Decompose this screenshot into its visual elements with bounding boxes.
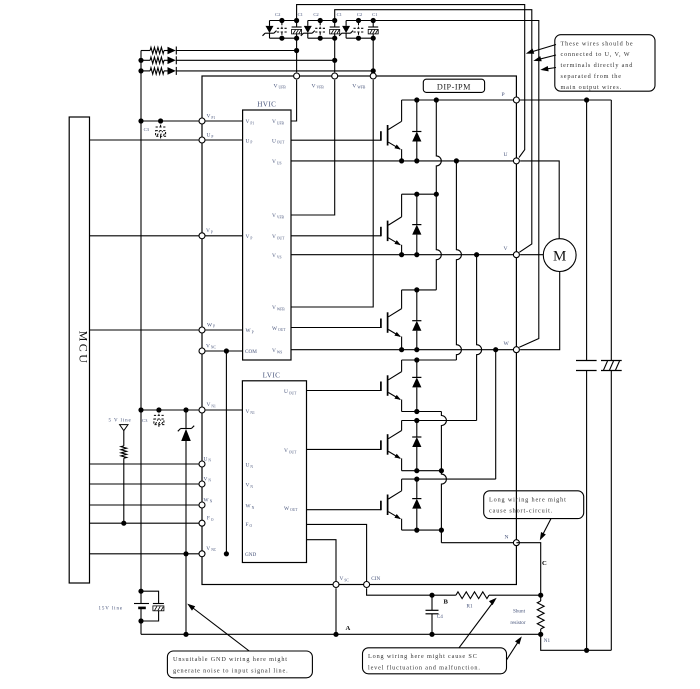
- wire snubber cap lower: [586, 371, 588, 651]
- wire W to motor: [520, 272, 560, 350]
- wire 15V bottom join: [140, 608, 142, 621]
- svg-text:W: W: [504, 341, 510, 347]
- svg-text:HVIC: HVIC: [257, 101, 276, 109]
- wire zener gnd to rail: [185, 554, 187, 635]
- svg-text:terminals directly and: terminals directly and: [561, 62, 634, 69]
- diode bootstrap charge W: [168, 67, 176, 75]
- terminal P: [513, 97, 519, 103]
- diode Q3 (W upper) freewheel: [416, 290, 418, 321]
- leader arrow to W sense wire: [544, 68, 556, 70]
- svg-text:C2: C2: [357, 12, 363, 17]
- leader arrow to N corner: [542, 519, 551, 536]
- wire P riser (feeds Q2,Q3): [436, 100, 441, 290]
- svg-text:A: A: [346, 625, 351, 632]
- wire electrolytic branch: [610, 100, 612, 361]
- wire MCU to VP: [90, 235, 203, 237]
- diode bootstrap charge U: [168, 47, 176, 55]
- wire LVIC pin to VSC terminal: [307, 540, 337, 585]
- transistor Q6 (W lower): [401, 479, 403, 491]
- svg-text:P: P: [502, 92, 505, 98]
- wire WP terminal to pin: [202, 329, 243, 331]
- battery 15V: [134, 603, 149, 605]
- wire rail U-bootstrap to U terminal: [297, 5, 525, 158]
- wire pull-up to Fo: [123, 458, 125, 523]
- terminal WN: [199, 502, 205, 508]
- wire rail W-bootstrap to W terminal: [373, 21, 539, 348]
- wire charge row V mid: [164, 59, 168, 61]
- svg-text:R1: R1: [467, 604, 473, 610]
- wire 5V arrow to resistor: [123, 431, 125, 446]
- wire V to motor: [520, 254, 543, 256]
- terminal VN: [199, 481, 205, 487]
- wire MCU to WP: [90, 329, 203, 331]
- svg-text:V: V: [504, 246, 508, 252]
- resistor Fo pull-up: [121, 446, 127, 458]
- zener diode VN1 clamp: [185, 410, 187, 429]
- leader arrow to N1 wiring: [507, 640, 520, 660]
- wire N to shunt: [516, 543, 540, 596]
- junction W riser/W row: [493, 347, 498, 352]
- resistor bootstrap charge U: [150, 47, 164, 53]
- DIP-IPM package outline: [202, 76, 516, 585]
- wire 15V cap branch top: [141, 591, 159, 603]
- svg-text:main output wires.: main output wires.: [561, 84, 623, 91]
- wire VWFB pin: [291, 80, 373, 307]
- capacitor C2 bootstrap V: [315, 23, 325, 36]
- svg-text:LVIC: LVIC: [263, 371, 281, 379]
- capacitor C3 (VN1, dashed): [154, 410, 164, 428]
- junction C4/R1 (node B): [429, 593, 434, 598]
- wire VUS row (U phase): [291, 160, 516, 162]
- junction bootstrap U / charge row: [294, 48, 299, 53]
- terminal VN1: [199, 407, 205, 413]
- svg-text:DIP-IPM: DIP-IPM: [437, 82, 471, 91]
- diode Q6 (W lower) freewheel: [416, 479, 418, 499]
- junction 15V/VP1 row: [138, 118, 143, 123]
- wire control gnd rail: [141, 633, 541, 635]
- wire MCU to WN: [90, 504, 203, 506]
- terminal VUFB: [294, 73, 300, 79]
- junction bootstrap V / charge row: [332, 58, 337, 63]
- wire LVIC VOUT gate row: [307, 448, 381, 450]
- capacitor C2 bootstrap U: [277, 23, 287, 36]
- junction N1: [538, 632, 543, 637]
- junction snubber/bottom: [584, 648, 589, 653]
- svg-text:generate noise to input signal: generate noise to input signal line.: [173, 668, 289, 675]
- junction GND link/GND row: [224, 551, 229, 556]
- terminal VVFB: [332, 73, 338, 79]
- terminal WP: [199, 327, 205, 333]
- transistor Q1 (U upper): [401, 100, 403, 121]
- svg-text:Long wiring here might: Long wiring here might: [489, 496, 567, 503]
- transistor Q3 (W upper): [401, 290, 403, 309]
- capacitor C3 (VP1, dashed): [156, 121, 166, 140]
- capacitor C1 bootstrap U: [296, 21, 298, 27]
- terminal V: [513, 252, 519, 258]
- junction D1/P: [414, 97, 419, 102]
- svg-text:M: M: [553, 249, 566, 265]
- svg-text:C3: C3: [142, 418, 148, 423]
- wire VP terminal to pin: [202, 235, 243, 237]
- junction D anode/W row: [414, 347, 419, 352]
- callout: sense wiring note: [555, 35, 655, 91]
- capacitor 15V electrolytic: [153, 603, 164, 605]
- wire charge row W mid: [164, 70, 168, 72]
- terminal VSC: [333, 582, 339, 588]
- svg-text:C1: C1: [298, 12, 304, 17]
- wire 15V to battery: [140, 591, 142, 603]
- junction dots bootstrap V: [318, 18, 323, 23]
- junction VSC/gnd rail (node A): [333, 632, 338, 637]
- wire bootstrap U bottom: [270, 37, 297, 39]
- junction C3/VP1: [158, 118, 163, 123]
- wire electrolytic lower: [610, 371, 612, 651]
- wire VP1 row: [141, 120, 202, 122]
- svg-text:MCU: MCU: [77, 331, 91, 366]
- junction bus/Q5 emitter: [439, 468, 444, 473]
- wire 15V to gnd rail: [140, 621, 142, 634]
- junction C3b/VN1: [156, 407, 161, 412]
- junction 15V/charge row V: [138, 58, 143, 63]
- junction zener/gnd row: [183, 551, 188, 556]
- wire bootstrap W top: [346, 20, 373, 22]
- diode Q2 (V upper) freewheel: [416, 194, 418, 224]
- svg-text:connected to U, V, W: connected to U, V, W: [561, 51, 631, 58]
- terminal UN: [199, 461, 205, 467]
- wire charge row U left: [141, 50, 150, 52]
- svg-text:CIN: CIN: [371, 576, 380, 582]
- junction D6 top: [414, 477, 419, 482]
- junction D4 top: [414, 357, 419, 362]
- resistor bootstrap charge V: [150, 57, 164, 63]
- terminal VWFB: [370, 73, 376, 79]
- wire U riser (to Q4): [456, 161, 461, 360]
- wire Q6 collector row: [402, 478, 496, 480]
- junction D2 top: [414, 192, 419, 197]
- wire MCU to UN: [90, 463, 203, 465]
- diode Q4 (U lower) freewheel: [416, 360, 418, 377]
- wire MCU to UP: [90, 139, 203, 141]
- diode Q1 (U upper) freewheel: [416, 100, 418, 132]
- junction C4/gnd rail: [429, 632, 434, 637]
- svg-text:COM: COM: [245, 349, 257, 355]
- svg-text:Long wiring here might cause S: Long wiring here might cause SC: [368, 653, 478, 660]
- wire bootstrap V bottom: [308, 37, 335, 39]
- terminal N: [513, 540, 519, 546]
- wire VSC to A node: [335, 588, 337, 634]
- wire Q3 collector row: [402, 289, 437, 291]
- wire rail V-bootstrap to V terminal: [335, 10, 532, 253]
- capacitor DC-link electrolytic: [601, 360, 622, 362]
- wire VNC to COM pin: [202, 350, 243, 352]
- junction P riser/P row: [434, 97, 439, 102]
- junction D anode/U row: [414, 158, 419, 163]
- svg-text:B: B: [444, 599, 449, 606]
- terminal VNC: [199, 348, 205, 354]
- wire snubber cap branch: [586, 100, 588, 361]
- svg-text:C1: C1: [372, 12, 378, 17]
- junction D6 anode: [414, 528, 419, 533]
- capacitor C2 bootstrap W: [354, 23, 364, 36]
- leader arrow to V sense wire: [537, 55, 556, 60]
- junction 15V/charge row W: [138, 68, 143, 73]
- terminal VP1: [199, 118, 205, 124]
- wire bootstrap U top: [270, 20, 297, 22]
- wire N1 to DC-link bottom: [541, 634, 612, 650]
- wire R1 to shunt top: [489, 594, 541, 596]
- junction zener gnd/rail: [183, 632, 188, 637]
- svg-text:5 V line: 5 V line: [109, 419, 132, 424]
- terminal UP: [199, 137, 205, 143]
- terminal VNC2: [199, 551, 205, 557]
- junction dots bootstrap U: [279, 18, 284, 23]
- capacitor snubber: [576, 360, 597, 362]
- svg-text:level fluctuation and malfunct: level fluctuation and malfunction.: [368, 664, 481, 671]
- svg-text:15V line: 15V line: [99, 607, 123, 612]
- diode Q5 (V lower) freewheel: [416, 421, 418, 438]
- wire U to motor: [520, 161, 559, 239]
- wire VWS row (W phase): [291, 349, 516, 351]
- junction D5 top: [414, 418, 419, 423]
- op-chip HVIC box: [243, 110, 291, 360]
- junction U riser/U row: [454, 158, 459, 163]
- junction V riser/V row: [474, 252, 479, 257]
- wire CIN to RC filter: [367, 588, 456, 595]
- op-chip LVIC box: [242, 381, 306, 563]
- junction shunt top: [538, 593, 543, 598]
- wire P row: [402, 99, 612, 101]
- junction zener/VN1: [183, 407, 188, 412]
- wire Q4 collector row: [402, 359, 457, 361]
- wire VOUT gate row: [291, 235, 381, 237]
- wire MCU gnd row: [90, 553, 203, 555]
- junction 15V cap branch top: [138, 589, 143, 594]
- shunt resistor: [540, 595, 542, 601]
- diode bootstrap charge V: [168, 57, 176, 65]
- junction bus/Q6 emitter: [439, 528, 444, 533]
- wire Q5 collector row: [402, 420, 477, 422]
- svg-text:C2: C2: [275, 12, 281, 17]
- wire UP terminal to pin: [202, 139, 243, 141]
- leader arrow to gnd wiring: [191, 607, 249, 652]
- wire charge row W left: [141, 70, 150, 72]
- junction Q emitter/V row: [399, 252, 404, 257]
- wire charge row U right: [176, 50, 297, 52]
- junction P riser/Q2 row: [434, 192, 439, 197]
- terminal CIN: [364, 582, 370, 588]
- wire VVFB pin: [291, 80, 335, 215]
- wire charge row V right: [176, 59, 335, 61]
- svg-text:Unsuitable GND wiring here mig: Unsuitable GND wiring here might: [173, 656, 288, 663]
- wire Q6 emitter row: [402, 529, 442, 531]
- resistor R1: [456, 592, 489, 599]
- junction Q emitter/W row: [399, 347, 404, 352]
- wire MCU to Fo: [90, 522, 203, 524]
- wire Q2 collector row: [402, 193, 437, 195]
- svg-text:resistor: resistor: [510, 620, 526, 626]
- wire COM to LVIC GND link: [225, 351, 227, 554]
- junction bootstrap W / charge row: [371, 68, 376, 73]
- svg-text:N: N: [505, 534, 509, 540]
- wire VN1 row: [141, 409, 242, 411]
- wire charge row V left: [141, 59, 150, 61]
- junction 15V/VN1 row: [138, 407, 143, 412]
- junction COM/GND link: [224, 348, 229, 353]
- wire Q5 emitter row: [402, 470, 442, 472]
- junction snubber/P row: [584, 97, 589, 102]
- wire V riser (to Q5): [477, 255, 482, 421]
- wire WOUT gate row: [291, 327, 381, 329]
- junction D anode/V row: [414, 252, 419, 257]
- wire VP1 terminal to pin: [202, 120, 243, 122]
- wire +15V rail vertical: [140, 51, 142, 592]
- svg-text:GND: GND: [245, 552, 256, 558]
- terminal Fo: [199, 520, 205, 526]
- motor M: [543, 239, 576, 272]
- junction D4 anode: [414, 409, 419, 414]
- wire MCU to VN: [90, 483, 203, 485]
- wire charge row W right: [176, 70, 373, 72]
- svg-text:C4: C4: [437, 614, 443, 620]
- terminal VP: [199, 233, 205, 239]
- svg-text:Shunt: Shunt: [513, 609, 526, 615]
- junction dots bootstrap W: [356, 18, 361, 23]
- transistor Q5 (V lower): [401, 421, 403, 431]
- junction pullup/Fo: [121, 521, 126, 526]
- wire UOUT gate row: [291, 139, 381, 141]
- svg-text:cause short-circuit.: cause short-circuit.: [489, 508, 553, 515]
- junction D3 top: [414, 287, 419, 292]
- callout: SC level note: [363, 648, 507, 674]
- svg-text:separated from the: separated from the: [561, 73, 622, 80]
- svg-text:C1: C1: [337, 12, 343, 17]
- capacitor C1 bootstrap W: [372, 21, 374, 27]
- capacitor C4: [431, 595, 433, 610]
- wire emitter bus to N: [441, 412, 446, 543]
- transistor Q2 (V upper): [401, 194, 403, 217]
- wire VVS row (V phase): [291, 254, 516, 256]
- wire bootstrap U to VUFB terminal: [296, 38, 298, 72]
- zener diode bootstrap V: [307, 21, 309, 26]
- wire W riser (to Q6): [495, 350, 497, 479]
- wire bootstrap V top: [308, 20, 335, 22]
- junction Q emitter/U row: [399, 158, 404, 163]
- zener diode bootstrap U: [269, 21, 271, 26]
- junction D5 anode: [414, 468, 419, 473]
- svg-text:C2: C2: [313, 12, 319, 17]
- transistor Q4 (U lower): [401, 360, 403, 372]
- terminal W: [513, 347, 519, 353]
- MCU block: [69, 117, 89, 583]
- wire bootstrap V to VVFB terminal: [334, 38, 336, 72]
- callout: short-circuit note: [484, 491, 584, 519]
- wire bootstrap W to VWFB terminal: [372, 38, 374, 72]
- DIP-IPM title box: [423, 79, 484, 92]
- terminal U: [513, 158, 519, 164]
- wire LVIC pin to CIN terminal: [307, 524, 367, 584]
- supply arrow 5V: [120, 425, 128, 431]
- callout: GND wiring note: [167, 651, 312, 678]
- capacitor C1 bootstrap V: [334, 21, 336, 27]
- svg-text:U: U: [504, 152, 508, 158]
- svg-text:C: C: [542, 560, 547, 567]
- wire N row: [441, 542, 516, 544]
- svg-text:N1: N1: [544, 638, 551, 644]
- svg-text:C3: C3: [144, 127, 150, 132]
- wire bootstrap W bottom: [346, 37, 373, 39]
- wire LVIC UOUT gate row: [307, 390, 381, 392]
- wire Q4 emitter row: [402, 411, 442, 413]
- leader arrow to shunt wiring: [459, 601, 494, 648]
- zener diode bootstrap W: [345, 21, 347, 26]
- resistor bootstrap charge W: [150, 68, 164, 74]
- wire charge row U mid: [164, 50, 168, 52]
- junction 15V bottom: [138, 618, 143, 623]
- wire VUFB pin: [291, 80, 297, 121]
- leader arrow to U sense wire: [530, 45, 557, 53]
- wire LVIC WOUT gate row: [307, 509, 381, 511]
- svg-text:These wires should be: These wires should be: [561, 40, 634, 47]
